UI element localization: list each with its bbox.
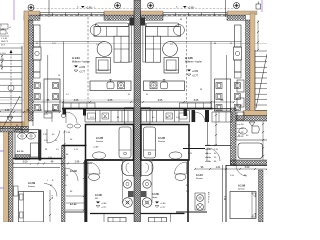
svg-text:x1: x1 <box>9 27 11 29</box>
svg-text:Gäste: Gäste <box>152 196 158 199</box>
svg-text:85: 85 <box>128 94 130 96</box>
svg-text:A 1.05: A 1.05 <box>96 137 104 140</box>
svg-text:x.xx 88: x.xx 88 <box>237 132 244 134</box>
svg-text:A 1.03: A 1.03 <box>70 170 77 173</box>
svg-text:3.00: 3.00 <box>23 161 28 164</box>
svg-text:96: 96 <box>58 75 60 77</box>
svg-text:L 2.10: L 2.10 <box>0 53 6 55</box>
svg-text:A 1.06: A 1.06 <box>152 193 159 196</box>
svg-text:x.xx 88: x.xx 88 <box>237 128 244 130</box>
svg-text:x: x <box>30 164 31 166</box>
svg-text:x.xx 88: x.xx 88 <box>237 124 244 126</box>
svg-text:WC: WC <box>95 198 99 200</box>
svg-text:2.01: 2.01 <box>38 109 43 112</box>
svg-text:1.01: 1.01 <box>216 166 221 169</box>
svg-text:A 1.10: A 1.10 <box>17 150 24 153</box>
svg-text:+2.80 -: +2.80 - <box>188 7 196 10</box>
svg-text:A 1.02: A 1.02 <box>70 203 77 206</box>
svg-text:3.05: 3.05 <box>74 99 79 102</box>
svg-text:+2.80: +2.80 <box>93 147 99 149</box>
svg-text:3.05: 3.05 <box>194 99 199 102</box>
svg-text:+2.77: +2.77 <box>160 207 166 209</box>
svg-text:Zimmer: Zimmer <box>196 178 203 180</box>
svg-text:88: 88 <box>36 43 38 45</box>
svg-text:A 1.09: A 1.09 <box>238 185 246 188</box>
svg-text:+2.80: +2.80 <box>192 70 199 73</box>
svg-text:A 1.06: A 1.06 <box>185 56 193 60</box>
svg-text:1.6: 1.6 <box>170 44 173 46</box>
svg-text:x.xx 88: x.xx 88 <box>237 136 244 138</box>
svg-text:L 2.10: L 2.10 <box>1 38 8 40</box>
svg-text:A 1.09: A 1.09 <box>28 182 36 185</box>
svg-text:Zimmer: Zimmer <box>28 185 35 188</box>
svg-text:Dusche: Dusche <box>96 141 104 143</box>
svg-text:3.05: 3.05 <box>158 99 163 102</box>
svg-text:L: L <box>120 61 121 63</box>
svg-text:Wohnen - kochen: Wohnen - kochen <box>72 62 91 64</box>
svg-text:A 1.06: A 1.06 <box>95 194 102 197</box>
svg-text:88: 88 <box>108 19 110 21</box>
svg-text:+2.80: +2.80 <box>101 203 107 205</box>
svg-text:1.38: 1.38 <box>5 109 10 112</box>
svg-text:+2.77: +2.77 <box>79 71 86 74</box>
svg-text:A 1.05: A 1.05 <box>158 137 166 140</box>
svg-text:+2.77: +2.77 <box>101 207 107 209</box>
svg-text:96: 96 <box>230 43 232 45</box>
svg-text:+2.77: +2.77 <box>192 75 199 78</box>
svg-text:A 1.04: A 1.04 <box>72 56 80 60</box>
svg-text:Dusche: Dusche <box>158 141 166 143</box>
svg-text:88: 88 <box>214 43 216 45</box>
svg-text:A 1.10: A 1.10 <box>196 174 203 177</box>
svg-text:8: 8 <box>7 33 8 35</box>
svg-text:3.05: 3.05 <box>108 99 113 102</box>
svg-text:18x17.5: 18x17.5 <box>1 41 9 43</box>
svg-text:2.01: 2.01 <box>52 43 56 45</box>
svg-text:1.6: 1.6 <box>96 44 99 46</box>
svg-text:88: 88 <box>200 89 202 91</box>
svg-text:Zimmer: Zimmer <box>238 189 245 191</box>
svg-text:3.00: 3.00 <box>245 166 250 169</box>
svg-text:85: 85 <box>146 94 148 96</box>
svg-text:2.0: 2.0 <box>66 94 69 96</box>
svg-text:+2.80: +2.80 <box>160 203 166 205</box>
svg-text:2.96: 2.96 <box>75 161 80 164</box>
svg-text:+2.80 - !: +2.80 - ! <box>86 7 96 10</box>
svg-text:88: 88 <box>180 19 182 21</box>
svg-text:Wohnen - koche: Wohnen - koche <box>185 62 202 64</box>
svg-text:+2.80: +2.80 <box>79 66 86 69</box>
svg-text:B 1.10 x.xx: B 1.10 x.xx <box>207 192 209 204</box>
